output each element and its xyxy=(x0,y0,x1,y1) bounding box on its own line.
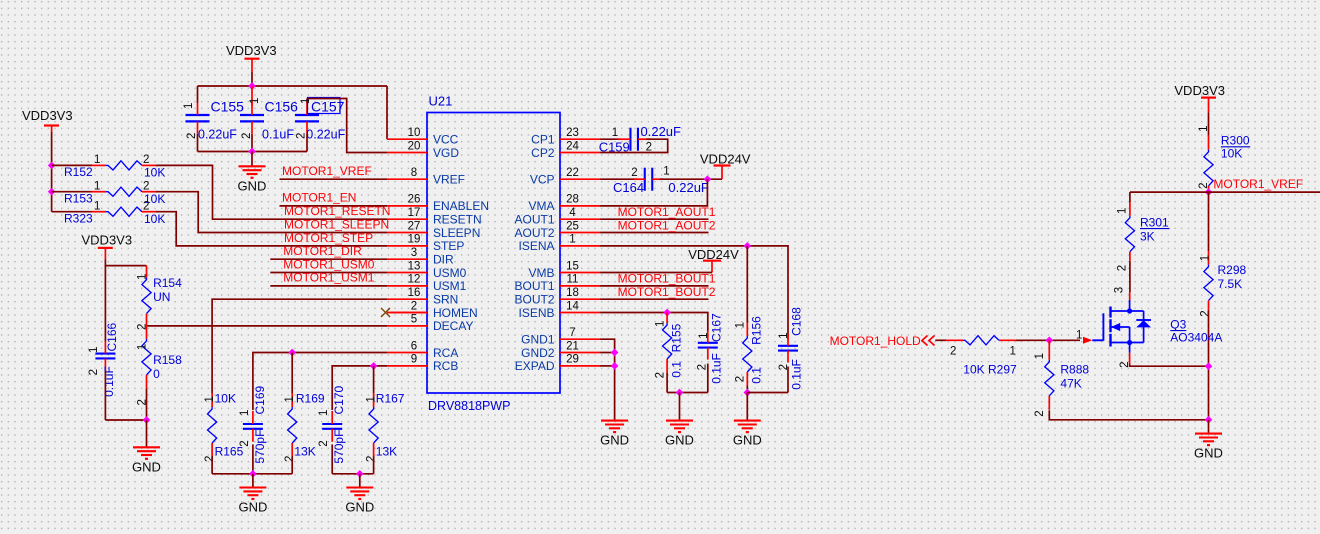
capacitor C157 xyxy=(295,98,346,152)
junction R152 feed xyxy=(48,162,56,170)
svg-text:MOTOR1_USM0: MOTOR1_USM0 xyxy=(283,257,374,271)
wire MOTOR1_USM0 stub xyxy=(270,272,387,274)
wire VDD3V3 stem to bus xyxy=(251,72,253,86)
svg-text:MOTOR1_EN: MOTOR1_EN xyxy=(282,191,356,205)
wire C170 bottom xyxy=(331,444,333,473)
svg-text:2: 2 xyxy=(88,369,100,375)
wire R165 bottom xyxy=(211,457,213,474)
svg-text:2: 2 xyxy=(1199,310,1211,316)
svg-text:1: 1 xyxy=(136,344,148,350)
pin 9 RCB xyxy=(387,354,458,374)
svg-text:USM0: USM0 xyxy=(433,266,467,280)
wire left cluster bottom bus xyxy=(212,473,292,475)
svg-text:18: 18 xyxy=(566,287,579,299)
svg-text:7: 7 xyxy=(569,327,575,339)
resistor R155 xyxy=(654,313,683,379)
wire R152 to RESETN xyxy=(156,165,387,219)
pin 15 VMB xyxy=(528,260,600,280)
pin 4 AOUT1 xyxy=(514,207,600,227)
svg-text:1: 1 xyxy=(1034,353,1046,359)
pin 8 VREF xyxy=(387,167,465,187)
svg-text:MOTOR1_BOUT1: MOTOR1_BOUT1 xyxy=(618,272,716,286)
svg-text:AOUT1: AOUT1 xyxy=(514,213,554,227)
junction R888 xyxy=(1045,336,1053,344)
svg-text:USM1: USM1 xyxy=(433,279,467,293)
wire BOUT2 stub xyxy=(600,298,709,300)
svg-text:3: 3 xyxy=(411,247,417,259)
svg-text:VCP: VCP xyxy=(530,173,555,187)
svg-text:29: 29 xyxy=(566,354,579,366)
wire R156 bottom xyxy=(746,386,748,393)
svg-text:VMA: VMA xyxy=(528,199,554,213)
capacitor C168 xyxy=(778,307,803,390)
pin 7 GND1 xyxy=(521,327,600,347)
svg-text:R153: R153 xyxy=(64,191,93,205)
svg-text:MOTOR1_USM1: MOTOR1_USM1 xyxy=(283,271,374,285)
svg-text:GND: GND xyxy=(132,459,161,474)
svg-text:VMB: VMB xyxy=(528,266,554,280)
junction cluster GND right xyxy=(356,470,364,478)
svg-text:GND: GND xyxy=(238,500,267,515)
junction bottom bus GND xyxy=(248,148,256,156)
svg-text:7.5K: 7.5K xyxy=(1218,277,1243,291)
svg-text:2: 2 xyxy=(1034,410,1046,416)
svg-text:DIR: DIR xyxy=(433,253,454,267)
wire ISENB run xyxy=(600,313,708,332)
wire R167 bottom xyxy=(373,457,375,474)
svg-text:R167: R167 xyxy=(376,392,405,406)
wire VDD3V3 left vertical xyxy=(51,132,53,212)
svg-text:5: 5 xyxy=(411,314,417,326)
wire MOTOR1_EN stub xyxy=(280,205,388,207)
svg-text:16: 16 xyxy=(408,287,421,299)
svg-text:13: 13 xyxy=(408,260,421,272)
svg-text:0.22uF: 0.22uF xyxy=(306,128,345,142)
wire R153 pin1 feed xyxy=(52,191,92,193)
svg-text:47K: 47K xyxy=(1060,377,1081,391)
svg-text:R155: R155 xyxy=(670,323,684,352)
wire MOTOR1_HOLD to R297 xyxy=(935,339,946,341)
svg-text:GND1: GND1 xyxy=(521,333,555,347)
power VDD3V3 (mid-left) xyxy=(82,233,133,260)
svg-text:1: 1 xyxy=(239,410,251,416)
svg-text:RCA: RCA xyxy=(433,346,458,360)
wire GND stem (R155) xyxy=(679,393,681,421)
wire C164 to VDD24V xyxy=(660,178,722,180)
wire R323 pin1 feed xyxy=(52,211,92,213)
wire VMB stub xyxy=(600,272,712,274)
wire GND2 join xyxy=(600,352,615,354)
svg-text:VGD: VGD xyxy=(433,146,459,160)
capacitor C155 xyxy=(183,86,244,152)
ground (cap bank) xyxy=(239,166,266,178)
resistor R888 xyxy=(1034,340,1090,416)
power VDD24V (upper) xyxy=(700,151,751,179)
wire GND stem (right) xyxy=(1208,420,1210,433)
svg-text:RESETN: RESETN xyxy=(433,213,482,227)
svg-text:1: 1 xyxy=(94,180,100,192)
wire GND stem (mid-left) xyxy=(146,420,148,447)
svg-text:VDD3V3: VDD3V3 xyxy=(1174,83,1225,98)
wire BOUT1 stub xyxy=(600,285,709,287)
svg-text:C156: C156 xyxy=(265,99,299,115)
power VDD24V (lower) xyxy=(688,247,739,273)
wire SRN to R165 column xyxy=(212,299,387,393)
wire ISENA run xyxy=(600,246,788,340)
pin 1 Q3 gate xyxy=(1076,330,1092,344)
svg-text:1: 1 xyxy=(1076,330,1082,342)
junction EXPAD xyxy=(611,362,619,370)
svg-text:2: 2 xyxy=(734,376,746,382)
svg-text:GND: GND xyxy=(1194,446,1223,461)
wire MOTOR1_VREF run xyxy=(1130,191,1320,193)
svg-text:STEP: STEP xyxy=(433,239,464,253)
svg-text:24: 24 xyxy=(566,140,579,152)
transistor Q3 xyxy=(1092,300,1222,353)
wire bus down to VCC pin10 xyxy=(386,86,388,139)
svg-text:1: 1 xyxy=(284,396,296,402)
svg-text:BOUT2: BOUT2 xyxy=(514,293,554,307)
svg-text:2: 2 xyxy=(241,133,253,139)
svg-text:1: 1 xyxy=(654,321,666,327)
svg-text:CP1: CP1 xyxy=(531,133,555,147)
pin 2 HOMEN xyxy=(387,300,478,320)
wire MOTOR1_USM1 stub xyxy=(270,285,387,287)
svg-text:CP2: CP2 xyxy=(531,146,555,160)
svg-text:17: 17 xyxy=(408,207,421,219)
svg-text:RCB: RCB xyxy=(433,359,458,373)
wire R152 pin1 feed xyxy=(52,164,92,166)
svg-text:VCC: VCC xyxy=(433,133,459,147)
svg-text:MOTOR1_HOLD: MOTOR1_HOLD xyxy=(830,334,921,348)
svg-text:8: 8 xyxy=(411,167,417,179)
svg-text:1: 1 xyxy=(612,127,618,139)
capacitor C169 xyxy=(239,385,267,463)
svg-text:10: 10 xyxy=(408,127,421,139)
svg-text:22: 22 xyxy=(566,167,579,179)
wire R298 to source node xyxy=(1208,310,1210,420)
junction RCA/R169 xyxy=(288,349,296,357)
wire GND stem (cap bank) xyxy=(251,152,253,166)
pin 20 VGD xyxy=(387,140,459,160)
svg-text:1: 1 xyxy=(1010,346,1016,358)
power VDD3V3 (left) xyxy=(22,108,73,132)
capacitor C170 xyxy=(318,385,346,463)
wire C157 to VGD pin20 xyxy=(307,99,387,153)
svg-text:AOUT2: AOUT2 xyxy=(514,226,554,240)
svg-text:MOTOR1_DIR: MOTOR1_DIR xyxy=(283,244,362,258)
wire CP1 to C159 xyxy=(600,138,621,140)
svg-text:0.1uF: 0.1uF xyxy=(789,359,803,390)
wire right cluster bottom bus xyxy=(332,473,373,475)
power VDD3V3 (right) xyxy=(1174,83,1225,112)
ground (mid-left) xyxy=(133,447,160,459)
wire AOUT2 stub xyxy=(600,232,709,234)
wire C166/R158 bottom bus xyxy=(105,419,146,421)
wire GND1 run xyxy=(600,339,615,420)
junction ISENB/R155 xyxy=(663,309,671,317)
svg-text:2: 2 xyxy=(143,154,149,166)
svg-text:2: 2 xyxy=(1116,265,1128,271)
svg-text:9: 9 xyxy=(411,354,417,366)
svg-text:15: 15 xyxy=(566,260,579,272)
svg-text:0.1: 0.1 xyxy=(750,367,764,384)
wire R298 top feed xyxy=(1208,192,1210,251)
capacitor C167 xyxy=(696,313,723,384)
pin 3 DIR xyxy=(387,247,454,267)
svg-text:BOUT1: BOUT1 xyxy=(514,279,554,293)
resistor R158 xyxy=(136,326,182,406)
svg-text:1: 1 xyxy=(183,103,195,109)
svg-text:R154: R154 xyxy=(153,276,182,290)
svg-text:EXPAD: EXPAD xyxy=(515,359,555,373)
wire VDD3V3 to R154/C166 xyxy=(105,259,146,265)
svg-text:2: 2 xyxy=(318,440,330,446)
pin 1 ISENA xyxy=(518,234,600,254)
svg-text:21: 21 xyxy=(566,340,579,352)
pin 16 SRN xyxy=(387,287,458,307)
power VDD3V3 (top) xyxy=(226,43,277,72)
wire VDD3V3 to R300 xyxy=(1208,112,1210,135)
capacitor C164 xyxy=(613,166,709,195)
svg-text:0.1uF: 0.1uF xyxy=(102,366,116,397)
ground (right) xyxy=(1195,434,1222,446)
svg-text:10K: 10K xyxy=(215,392,236,406)
wire R301 top feed xyxy=(1129,192,1131,202)
svg-text:1: 1 xyxy=(249,98,261,104)
pin 23 CP1 xyxy=(531,127,600,147)
svg-text:10K: 10K xyxy=(144,212,165,226)
wire C167 bottom xyxy=(707,364,709,393)
svg-text:1: 1 xyxy=(136,274,148,280)
svg-text:0.1uF: 0.1uF xyxy=(710,353,724,384)
resistor R153 xyxy=(64,180,165,206)
svg-text:C155: C155 xyxy=(211,99,245,115)
wire R158 bottom xyxy=(146,388,148,420)
wire RCB to C170 column xyxy=(332,366,387,410)
wire R156 top feed xyxy=(746,246,748,323)
svg-text:VDD3V3: VDD3V3 xyxy=(226,43,277,58)
junction VREF/R300 xyxy=(1205,188,1213,196)
wire R888 top feed xyxy=(1048,340,1050,345)
svg-text:C169: C169 xyxy=(253,385,267,414)
svg-text:R152: R152 xyxy=(64,165,93,179)
svg-text:2: 2 xyxy=(239,440,251,446)
wire C166 top feed xyxy=(104,266,106,342)
resistor R156 xyxy=(734,316,763,386)
junction ISENA/R156 xyxy=(743,242,751,250)
svg-text:0.22uF: 0.22uF xyxy=(641,124,682,139)
svg-text:ISENA: ISENA xyxy=(518,239,554,253)
resistor R169 xyxy=(284,392,325,463)
svg-text:UN: UN xyxy=(153,290,170,304)
svg-text:MOTOR1_STEP: MOTOR1_STEP xyxy=(284,231,373,245)
svg-text:2: 2 xyxy=(186,133,198,139)
wire Q3 source to R298 column xyxy=(1130,363,1209,366)
junction source row xyxy=(1205,362,1213,370)
wire VMA riser xyxy=(600,179,707,206)
capacitor C159 xyxy=(599,124,681,155)
svg-text:0.22uF: 0.22uF xyxy=(668,180,709,195)
svg-text:1: 1 xyxy=(778,332,790,338)
svg-text:ISENB: ISENB xyxy=(518,306,554,320)
resistor R167 xyxy=(365,392,405,463)
svg-text:VDD3V3: VDD3V3 xyxy=(82,233,133,248)
wire DECAY to R154/R158 node xyxy=(147,325,388,327)
svg-text:1: 1 xyxy=(318,410,330,416)
svg-text:11: 11 xyxy=(567,274,579,286)
svg-text:0.1uF: 0.1uF xyxy=(262,128,294,142)
wire R167 top feed xyxy=(373,366,375,393)
svg-text:MOTOR1_AOUT1: MOTOR1_AOUT1 xyxy=(618,205,716,219)
pin 10 VCC xyxy=(387,127,459,147)
pin 18 BOUT2 xyxy=(514,287,600,307)
svg-text:4: 4 xyxy=(569,207,576,219)
pin 22 VCP xyxy=(530,167,600,187)
resistor R300 xyxy=(1198,125,1250,192)
junction cap bus xyxy=(248,82,256,90)
wire bottom capacitor bus xyxy=(198,151,308,153)
svg-text:570pF: 570pF xyxy=(332,430,346,464)
svg-text:6: 6 xyxy=(411,340,417,352)
svg-text:570pF: 570pF xyxy=(253,430,267,464)
svg-text:23: 23 xyxy=(566,127,579,139)
svg-text:MOTOR1_VREF: MOTOR1_VREF xyxy=(282,164,372,178)
svg-text:2: 2 xyxy=(696,364,708,370)
svg-text:R156: R156 xyxy=(750,316,764,345)
ground (cluster right) xyxy=(346,488,373,500)
svg-text:C167: C167 xyxy=(710,313,724,342)
svg-text:13K: 13K xyxy=(376,445,397,459)
pin 14 ISENB xyxy=(518,300,600,320)
junction cluster GND left xyxy=(249,470,257,478)
svg-text:27: 27 xyxy=(408,220,421,232)
svg-text:MOTOR1_AOUT2: MOTOR1_AOUT2 xyxy=(618,218,716,232)
svg-text:2: 2 xyxy=(950,346,956,358)
svg-text:C168: C168 xyxy=(789,307,803,336)
svg-text:AO3404A: AO3404A xyxy=(1170,330,1222,344)
ground (R155) xyxy=(666,421,693,433)
wire MOTOR1_DIR stub xyxy=(270,258,387,260)
svg-text:R158: R158 xyxy=(153,353,182,367)
pin 3 Q3 drain xyxy=(1114,287,1130,300)
svg-text:1: 1 xyxy=(94,154,100,166)
svg-text:DECAY: DECAY xyxy=(433,319,473,333)
svg-text:R301: R301 xyxy=(1140,215,1169,229)
svg-text:MOTOR1_VREF: MOTOR1_VREF xyxy=(1213,177,1303,191)
wire R156/C168 bottom bus xyxy=(747,392,788,394)
pin 5 DECAY xyxy=(387,314,473,334)
ground (cluster left) xyxy=(239,488,266,500)
ground (EXPAD) xyxy=(601,421,628,433)
svg-text:1: 1 xyxy=(1199,255,1211,261)
svg-text:HOMEN: HOMEN xyxy=(433,306,478,320)
svg-text:1: 1 xyxy=(88,347,100,353)
pin 13 USM0 xyxy=(387,260,467,280)
svg-text:3: 3 xyxy=(1114,287,1126,293)
pin 25 AOUT2 xyxy=(514,220,600,240)
ic U21 DRV8818PWP body xyxy=(427,94,560,414)
svg-text:25: 25 xyxy=(566,220,579,232)
wire R169 bottom xyxy=(291,457,293,474)
wire top capacitor bus xyxy=(198,85,388,87)
svg-text:GND: GND xyxy=(665,433,694,448)
svg-text:12: 12 xyxy=(408,274,421,286)
svg-text:VDD24V: VDD24V xyxy=(700,151,751,166)
svg-text:VREF: VREF xyxy=(433,173,465,187)
wire R155/C167 bottom bus xyxy=(667,392,708,394)
svg-text:DRV8818PWP: DRV8818PWP xyxy=(428,399,510,413)
wire C168 bottom xyxy=(787,367,789,393)
junction GND2 xyxy=(611,349,619,357)
svg-text:2: 2 xyxy=(631,167,637,179)
pin 6 RCA xyxy=(387,340,458,360)
junction R156 GND xyxy=(743,389,751,397)
svg-text:2: 2 xyxy=(411,300,417,312)
svg-text:1: 1 xyxy=(94,200,100,212)
junction R153 feed xyxy=(48,188,56,196)
svg-text:1: 1 xyxy=(1198,125,1210,131)
svg-text:0: 0 xyxy=(153,367,160,381)
svg-text:R888: R888 xyxy=(1060,362,1089,376)
wire R888 bottom to GND row xyxy=(1049,410,1208,420)
svg-text:1: 1 xyxy=(569,234,575,246)
svg-text:0.22uF: 0.22uF xyxy=(198,128,237,142)
svg-text:GND2: GND2 xyxy=(521,346,555,360)
resistor R323 xyxy=(64,200,165,226)
junction RCB/R167 xyxy=(370,362,378,370)
resistor R297 xyxy=(946,336,1022,377)
svg-text:GND: GND xyxy=(733,433,762,448)
net label MOTOR1_HOLD xyxy=(830,334,935,348)
svg-text:ENABLEN: ENABLEN xyxy=(433,199,489,213)
pin 21 GND2 xyxy=(521,340,600,360)
svg-text:C170: C170 xyxy=(332,385,346,414)
svg-text:U21: U21 xyxy=(429,94,453,109)
svg-text:MOTOR1_BOUT2: MOTOR1_BOUT2 xyxy=(618,285,716,299)
wire GND stem (cluster left) xyxy=(252,474,254,487)
svg-text:R323: R323 xyxy=(64,211,93,225)
wire R297 to gate node xyxy=(1016,339,1080,341)
svg-text:1: 1 xyxy=(698,332,710,338)
junction bottom GND row xyxy=(1205,416,1213,424)
svg-text:1: 1 xyxy=(734,322,746,328)
wire AOUT1 stub xyxy=(600,218,709,220)
wire VCP to C164 xyxy=(600,178,637,180)
pin 27 SLEEPN xyxy=(387,220,480,240)
svg-text:Q3: Q3 xyxy=(1170,317,1186,331)
svg-text:2: 2 xyxy=(143,200,149,212)
svg-text:0.1: 0.1 xyxy=(670,361,684,378)
wire RCA to C169 column xyxy=(253,353,387,411)
svg-text:C166: C166 xyxy=(105,322,119,351)
svg-text:1: 1 xyxy=(1116,208,1128,214)
svg-text:2: 2 xyxy=(1198,182,1210,188)
wire R153 to SLEEPN xyxy=(156,192,387,233)
resistor R154 xyxy=(136,266,182,330)
pin 24 CP2 xyxy=(531,140,600,160)
resistor R298 xyxy=(1199,251,1246,317)
ground (R156) xyxy=(734,421,761,433)
svg-text:GND: GND xyxy=(345,500,374,515)
svg-text:2: 2 xyxy=(654,372,666,378)
wire C169 bottom xyxy=(252,444,254,473)
svg-text:14: 14 xyxy=(566,300,579,312)
svg-text:C157: C157 xyxy=(311,99,345,115)
junction R155 GND xyxy=(676,389,684,397)
svg-text:GND: GND xyxy=(238,178,267,193)
wire HOMEN pin stub xyxy=(391,312,428,314)
